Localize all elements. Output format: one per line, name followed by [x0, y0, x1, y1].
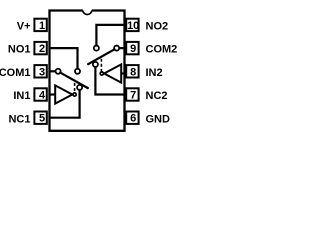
pin 9 box: [126, 42, 138, 54]
svg-text:1: 1: [39, 20, 45, 32]
svg-text:5: 5: [39, 113, 45, 125]
svg-text:10: 10: [127, 20, 139, 32]
pin 4 box: [34, 88, 46, 100]
dashed control line S2: [100, 59, 102, 72]
svg-text:9: 9: [130, 43, 136, 55]
wire NO2 pin10 to contact: [96, 25, 124, 46]
wire NC2 riser to pin7: [95, 67, 124, 95]
inverter U1B: [104, 64, 121, 82]
svg-text:COM2: COM2: [146, 44, 178, 56]
package notch: [83, 11, 92, 15]
inverter U1B bubble: [100, 72, 103, 75]
svg-text:2: 2: [39, 43, 45, 55]
svg-text:GND: GND: [146, 113, 171, 125]
svg-text:V+: V+: [17, 21, 31, 33]
svg-text:7: 7: [130, 90, 136, 102]
svg-text:IN2: IN2: [146, 67, 163, 79]
pin 10 box: [126, 19, 138, 31]
inverter U1A: [55, 85, 72, 103]
svg-text:NO1: NO1: [8, 44, 31, 56]
wire IN1 stub pin4: [50, 93, 56, 95]
pin 2 box: [34, 42, 46, 54]
pin 8 box: [126, 65, 138, 77]
svg-text:NC1: NC1: [8, 113, 30, 125]
wire COM2 pin9 to pole: [119, 47, 125, 49]
node COM1 pole: [56, 69, 61, 74]
node COM2 pole: [114, 46, 119, 51]
svg-text:6: 6: [130, 113, 136, 125]
pin 5 box: [34, 112, 46, 124]
wire IN2 stub pin8: [121, 72, 125, 74]
inverter U1A bubble: [73, 93, 76, 96]
svg-text:NO2: NO2: [146, 21, 169, 33]
pin 1 box: [34, 19, 46, 31]
svg-text:8: 8: [130, 66, 136, 78]
svg-text:4: 4: [39, 90, 46, 102]
node NC2 contact: [93, 62, 98, 67]
switch S2 blade end dot: [87, 63, 89, 65]
pin 7 box: [126, 88, 138, 100]
wire NC1 riser to pin5: [50, 90, 80, 118]
switch S1 blade: [60, 73, 87, 88]
switch S2 blade: [88, 49, 114, 64]
svg-text:COM1: COM1: [0, 67, 31, 79]
svg-text:NC2: NC2: [146, 90, 168, 102]
node NC1 contact: [77, 85, 82, 90]
svg-text:3: 3: [39, 66, 45, 78]
switch S1 blade end dot: [87, 87, 89, 89]
wire NO1 pin2 to contact: [50, 48, 78, 69]
IC body outline U1: [50, 11, 125, 131]
pin 6 box: [126, 112, 138, 124]
wire COM1 pin3 to pole: [50, 70, 56, 72]
node NO2 contact: [94, 46, 99, 51]
node NO1 contact: [75, 69, 80, 74]
pin 3 box: [34, 65, 46, 77]
dashed control line S1: [74, 80, 76, 91]
svg-text:IN1: IN1: [13, 90, 30, 102]
